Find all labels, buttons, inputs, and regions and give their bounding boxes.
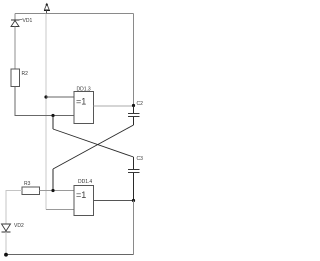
node junction on R3 net <box>51 189 54 192</box>
wire top rail VCC <box>15 13 134 15</box>
diode VD2 <box>2 224 11 232</box>
power terminal symbol <box>44 4 50 14</box>
wire center vertical power net <box>45 14 47 210</box>
diode VD1 (zener) <box>11 20 23 27</box>
node junction on power net <box>44 95 47 98</box>
wire gate DD1.4 output <box>94 200 134 202</box>
svg-text:C2: C2 <box>137 101 144 107</box>
wire vertical into C3 top plate <box>133 157 135 170</box>
op-amp gate DD1.4 box <box>74 186 94 216</box>
op-amp gate DD1.3 box <box>74 92 94 124</box>
wire VD2 to bottom rail <box>5 232 7 255</box>
svg-text:VD2: VD2 <box>14 223 24 229</box>
wire right vertical to bottom rail <box>133 201 135 255</box>
wire bottom rail <box>6 254 134 256</box>
svg-text:=1: =1 <box>76 190 86 200</box>
wire power net to gate DD1.3 input 1 <box>46 96 74 98</box>
wire diagonal to C3 <box>53 129 134 157</box>
wire vertical down to R3 net <box>52 169 54 191</box>
wire gate DD1.3 output <box>94 105 134 107</box>
svg-text:R2: R2 <box>22 71 29 77</box>
svg-text:=1: =1 <box>76 97 86 107</box>
wire VD1 to R2 <box>14 27 16 70</box>
node junction bottom left <box>4 253 8 257</box>
wire power net elbow to DD1.4 input 2 <box>46 209 74 211</box>
capacitor C3 <box>128 170 140 201</box>
capacitor C2 <box>128 106 140 126</box>
resistor R3 <box>22 187 40 195</box>
wire R3 right to gate DD1.4 input 1 <box>40 190 75 192</box>
node junction at C3 bottom net <box>132 199 135 202</box>
node junction at C2 <box>132 104 135 107</box>
wire right vertical from top rail to C2 <box>133 14 135 107</box>
wire branch down from R2 net <box>52 116 54 130</box>
svg-text:VD1: VD1 <box>23 18 33 24</box>
wire R3 left to VD2 column <box>6 191 22 225</box>
wire VD1 top stub <box>14 14 16 21</box>
svg-text:DD1.3: DD1.3 <box>77 87 91 93</box>
wire diagonal C2 to lower gate input <box>53 125 134 169</box>
node junction R2 net branch <box>51 114 54 117</box>
wire R2 to gate DD1.3 input 2 <box>15 87 74 116</box>
resistor R2 <box>11 69 20 87</box>
svg-text:C3: C3 <box>137 156 144 162</box>
svg-text:DD1.4: DD1.4 <box>78 179 92 185</box>
svg-text:R3: R3 <box>24 181 31 187</box>
